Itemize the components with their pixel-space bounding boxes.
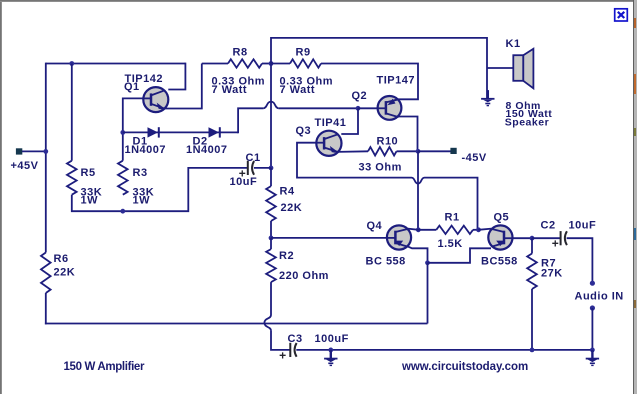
- node: output junction R8/R9: [269, 61, 274, 66]
- transistor Q5 BC558: [488, 225, 512, 249]
- transistor Q2 TIP147: [378, 96, 402, 120]
- node: C3 ground junction: [328, 348, 333, 353]
- wire: R8 right lead: [262, 63, 271, 65]
- ground: C3 ground: [330, 350, 332, 358]
- wire: top-left +45V rail: [46, 63, 186, 65]
- svg-text:1N4007: 1N4007: [125, 144, 167, 156]
- svg-text:R3: R3: [133, 167, 148, 179]
- wire: R5 top lead: [71, 64, 73, 161]
- wire: -45 vertical drop: [417, 151, 419, 230]
- wire: speaker stub: [487, 67, 513, 69]
- capacitor C1: [247, 161, 249, 175]
- svg-text:Q5: Q5: [494, 211, 510, 223]
- wire: Q2 base lead: [358, 107, 378, 109]
- resistor R8: [228, 59, 262, 67]
- node: R1 left junction: [416, 227, 421, 232]
- wire: D2 up to Q2 base run: [238, 108, 263, 133]
- svg-text:+: +: [552, 237, 560, 251]
- wire: output riser: [271, 38, 487, 99]
- svg-text:Speaker: Speaker: [505, 117, 549, 129]
- wire: Q2 collector drop: [398, 117, 417, 152]
- node: Q2 base junction: [356, 106, 361, 111]
- svg-text:7 Watt: 7 Watt: [280, 84, 316, 96]
- wire: bottom rail B: [296, 349, 592, 351]
- svg-text:+45V: +45V: [11, 160, 39, 172]
- wire: R4 top lead: [270, 168, 272, 186]
- wire: Q3 base run: [297, 143, 412, 178]
- wire: C2 right to audio terminal: [567, 238, 593, 281]
- svg-text:+: +: [279, 348, 287, 362]
- wire: Q2 emitter stub: [394, 99, 398, 100]
- svg-text:220 Ohm: 220 Ohm: [279, 270, 329, 282]
- svg-text:www.circuitstoday.com: www.circuitstoday.com: [401, 361, 528, 373]
- svg-text:27K: 27K: [541, 267, 563, 279]
- wire: audio gnd drop: [591, 308, 593, 350]
- svg-text:R5: R5: [81, 167, 96, 179]
- wire: left vertical rail lower: [45, 293, 47, 324]
- node: R1 right junction: [476, 227, 481, 232]
- node: audio in terminal: [590, 281, 595, 286]
- wire: bottom rail A: [45, 323, 428, 325]
- svg-text:1W: 1W: [81, 195, 99, 207]
- wire: +45V to rail: [22, 150, 46, 152]
- wire: Q3 emitter to R10: [338, 150, 368, 153]
- terminal +45V: [16, 148, 22, 154]
- resistor R4: [266, 186, 276, 221]
- wire: hop over -45 drop: [412, 178, 425, 184]
- svg-text:100uF: 100uF: [315, 333, 349, 345]
- wire: R1 right lead: [473, 229, 479, 231]
- svg-text:K1: K1: [506, 38, 521, 50]
- node: C1 out junction: [269, 166, 274, 171]
- wire: R5 bottom lead: [72, 195, 123, 212]
- resistor R7: [527, 254, 537, 290]
- wire: R4 bottom lead: [270, 221, 272, 238]
- wire: mid rail upper segment: [270, 64, 272, 169]
- node: Q5 base junction: [530, 236, 535, 241]
- svg-text:33 Ohm: 33 Ohm: [359, 161, 402, 173]
- wire: C2 left lead: [532, 237, 561, 239]
- svg-text:Q2: Q2: [352, 90, 368, 102]
- svg-text:+: +: [239, 167, 247, 181]
- transistor Q4 BC558: [387, 225, 411, 249]
- ground: audio ground: [591, 350, 593, 358]
- node: Q4 base junction: [269, 236, 274, 241]
- svg-text:TIP147: TIP147: [377, 74, 415, 86]
- svg-text:Q4: Q4: [367, 220, 383, 232]
- wire: R7 bottom lead: [531, 289, 533, 350]
- wire: C1 right lead: [254, 167, 271, 169]
- svg-text:R4: R4: [280, 186, 295, 198]
- svg-text:R2: R2: [279, 250, 294, 262]
- wire: R2 top lead: [270, 238, 272, 249]
- svg-text:C2: C2: [541, 220, 556, 232]
- wire: Q2 base to Q3 collector: [341, 108, 358, 134]
- node: emitter bridge junction: [425, 260, 430, 265]
- svg-text:1.5K: 1.5K: [438, 238, 463, 250]
- svg-text:R6: R6: [54, 253, 69, 265]
- wire: Q5 base lead: [512, 237, 532, 239]
- wire: hop over bottom rail A: [264, 315, 271, 331]
- wire: R9 right lead to Q2 emitter: [321, 64, 418, 100]
- terminal -45V: [450, 148, 456, 154]
- wire: to Q2 base junction: [279, 107, 358, 109]
- wire: R10 right lead: [397, 150, 419, 152]
- svg-text:R10: R10: [377, 136, 399, 148]
- close button: [615, 9, 628, 21]
- capacitor C3: [289, 343, 291, 357]
- wire: emitter drop to rail A: [427, 263, 429, 324]
- speaker K1: [513, 55, 523, 81]
- node: audio ground junction: [590, 348, 595, 353]
- wire: Q1 emitter to R8 riser: [165, 64, 202, 109]
- svg-text:-45V: -45V: [462, 152, 487, 164]
- diode D2: [209, 127, 220, 137]
- wire: Q4 emitter run: [408, 246, 428, 262]
- transistor Q3 TIP41: [316, 131, 341, 156]
- svg-text:BC558: BC558: [481, 255, 518, 267]
- svg-text:C1: C1: [246, 152, 261, 164]
- wire: R3 top lead: [122, 132, 124, 160]
- svg-text:BC 558: BC 558: [366, 255, 406, 267]
- svg-text:Q3: Q3: [296, 125, 312, 137]
- wire: R9 left lead: [271, 63, 290, 65]
- node: -45V junction: [416, 149, 421, 154]
- wire: Q3 base run right: [425, 178, 478, 230]
- wire: -45V stub: [418, 150, 451, 152]
- diode D1: [148, 127, 159, 137]
- wire: diode row: [123, 131, 238, 133]
- wire: Q1 collector drop: [168, 63, 185, 90]
- capacitor C2: [560, 231, 562, 245]
- wire: Q4 base lead: [271, 237, 387, 239]
- svg-text:R8: R8: [233, 46, 248, 58]
- svg-text:C3: C3: [288, 333, 303, 345]
- resistor R1: [436, 226, 473, 234]
- svg-text:22K: 22K: [54, 267, 76, 279]
- resistor R3: [118, 161, 128, 195]
- wire: left vertical rail upper: [45, 63, 47, 253]
- node: R5 tap on +45 rail: [69, 61, 74, 66]
- resistor R2: [266, 249, 276, 282]
- node: R3 bottom junction: [120, 209, 125, 214]
- node: audio gnd terminal: [590, 305, 595, 310]
- resistor R10: [368, 147, 397, 155]
- svg-text:22K: 22K: [281, 202, 303, 214]
- svg-text:1W: 1W: [133, 195, 151, 207]
- wire: Q4 collector stub: [408, 229, 419, 230]
- wire: to C3 line: [271, 331, 290, 350]
- node: D1 anode junction: [120, 130, 125, 135]
- wire: emitter bridge: [428, 248, 492, 262]
- wire: R8 left lead: [202, 63, 228, 65]
- resistor R6: [41, 253, 51, 294]
- transistor Q1 TIP142: [143, 87, 168, 112]
- node: +45V junction: [43, 149, 48, 154]
- wire: hop over mid rail: [263, 102, 279, 109]
- wire: R2 bottom lead: [270, 282, 272, 315]
- wire: R7 top lead: [531, 238, 533, 253]
- svg-text:10uF: 10uF: [569, 220, 597, 232]
- resistor R9: [290, 59, 321, 67]
- svg-text:TIP41: TIP41: [315, 117, 347, 129]
- svg-text:Audio IN: Audio IN: [575, 291, 624, 303]
- wire: R1 left lead: [418, 229, 436, 231]
- svg-text:7 Watt: 7 Watt: [212, 84, 248, 96]
- node: R7 ground junction: [530, 348, 535, 353]
- svg-text:150 W Amplifier: 150 W Amplifier: [64, 361, 145, 373]
- svg-text:1N4007: 1N4007: [186, 144, 228, 156]
- wire: Q5 collector stub: [479, 229, 492, 230]
- ground: speaker ground: [487, 90, 489, 98]
- wire: Q1 base lead: [123, 98, 144, 132]
- wire: rail y211 to C1: [123, 168, 248, 211]
- svg-text:Q1: Q1: [124, 81, 140, 93]
- resistor R5: [67, 161, 77, 195]
- svg-text:R9: R9: [296, 46, 311, 58]
- svg-text:R1: R1: [445, 211, 460, 223]
